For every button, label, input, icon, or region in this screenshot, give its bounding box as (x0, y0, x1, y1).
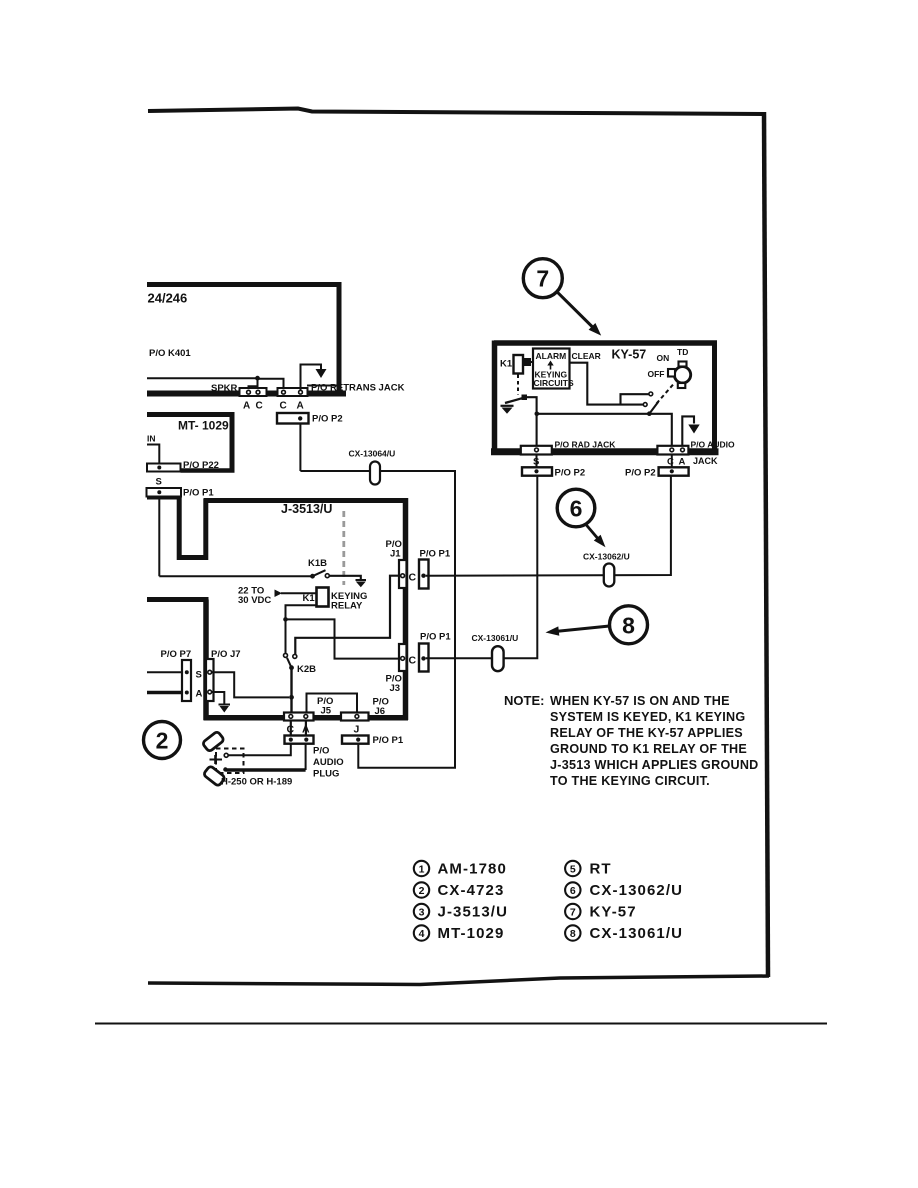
label KEYING RELAY (331, 591, 367, 612)
NOTE text block (550, 694, 759, 788)
callout 7 arrow (557, 292, 601, 336)
P/O P1 connector (MT-1029) (147, 488, 182, 497)
svg-text:P/O AUDIO: P/O AUDIO (691, 440, 735, 450)
up arrow in alarm box (547, 361, 553, 370)
alarm keying circuits box (533, 349, 570, 389)
P/O P2 connector (retrans) (277, 413, 309, 424)
TD switch arm (649, 402, 658, 414)
label C A (audio jack) (667, 457, 686, 468)
label P/O AUDIO (691, 440, 735, 450)
pin label C (SPKR) (256, 401, 263, 412)
svg-text:KY-57: KY-57 (590, 904, 637, 921)
AM-1780 box right edge (337, 282, 342, 396)
label JACK (693, 456, 718, 466)
audio jack pin A (681, 448, 685, 452)
connector P/O AUDIO JACK (657, 446, 688, 455)
wire plug A down link (305, 744, 307, 770)
svg-text:J-3513/U: J-3513/U (438, 904, 509, 921)
pin A of P7 (185, 691, 189, 695)
wire upper long run to KY-57 P2 (426, 476, 671, 576)
label ALARM (536, 351, 567, 361)
label IN (147, 434, 156, 444)
label TD (677, 347, 688, 357)
pin label C (287, 724, 295, 736)
pin label A (302, 724, 310, 736)
J-3513/U box left lower edge (203, 600, 209, 721)
ground (K1B) (356, 580, 367, 587)
AM-1780 internal shelf line left (147, 377, 258, 379)
svg-text:8: 8 (570, 928, 576, 940)
callout 6 arrow (586, 524, 606, 547)
svg-text:JACK: JACK (693, 456, 718, 466)
label S (RAD) (533, 457, 539, 468)
rotary knob circle (674, 367, 690, 383)
wire J7 A to ground (212, 692, 225, 704)
handset mouthpiece (203, 765, 225, 786)
scan top border (148, 109, 764, 115)
label 24/246 (148, 291, 188, 306)
switch K1B contact (325, 574, 329, 578)
ground (KY left) (501, 406, 514, 414)
svg-text:3: 3 (419, 906, 425, 918)
wire S line to K1B (159, 575, 311, 577)
MT-1029 box top edge (147, 412, 235, 417)
junction dot on S wire (535, 412, 540, 417)
wire RAD S to P2 (536, 455, 538, 468)
ground (J7 A) (219, 705, 231, 713)
svg-text:AM-1780: AM-1780 (438, 861, 507, 878)
label P/O P1 (upper right) (420, 549, 451, 560)
pin label A (SPKR) (243, 401, 250, 412)
wire CX-13064 run to J plug (300, 471, 455, 768)
svg-text:ALARM: ALARM (536, 351, 567, 361)
J-3513/U box left flange U-dip (179, 498, 206, 558)
relay K1 tab (523, 358, 531, 366)
legend item 3 (414, 904, 508, 921)
KY-57 box left edge (492, 341, 498, 456)
wire K1B contact to ground (329, 576, 361, 580)
label J-3513/U (281, 502, 332, 516)
label KY-57 title (612, 348, 647, 362)
pin J (edge) (355, 715, 359, 719)
svg-text:P/O RAD JACK: P/O RAD JACK (555, 440, 617, 450)
SPKR jack connector (240, 388, 267, 396)
retrans jack pin A (299, 390, 303, 394)
svg-text:6: 6 (570, 885, 576, 897)
pin label C (J3) (409, 655, 417, 667)
pin label A (retrans) (297, 401, 304, 412)
relay K1 (KY) (514, 355, 524, 374)
switch K2B pivot dot (289, 665, 294, 670)
P/O P22 pin (157, 466, 161, 470)
wire A pin to ground (KY right) (682, 416, 694, 447)
P/O P1 pin (157, 490, 161, 494)
P/O J5 outline box (307, 694, 358, 717)
pin C of J1 (401, 574, 405, 578)
svg-text:P/O P2: P/O P2 (625, 467, 656, 478)
label KEYING (alarm box) (535, 370, 568, 380)
pin label J (354, 724, 360, 736)
label P/O J1 (386, 539, 402, 560)
legend item 5 (565, 861, 612, 878)
AM-1780 box bottom edge (147, 391, 346, 397)
label P/O RAD JACK (555, 440, 617, 450)
switch K1B arm (313, 570, 326, 576)
label P/O P2 (right KY) (625, 467, 656, 478)
wire alarm box to TD contacts (570, 363, 644, 405)
label K1B (308, 558, 327, 569)
pin S of J7 (208, 670, 212, 674)
P2 right pin (670, 469, 674, 473)
audio plug pin C (289, 738, 293, 742)
arrow 22-30VDC feed (275, 590, 317, 598)
pin A (edge) (304, 715, 308, 719)
SPKR jack pin C (256, 390, 260, 394)
connector P/O P2 (left KY) (522, 467, 552, 475)
switch K2B contact A (284, 653, 288, 657)
wire TD common to S wire (537, 413, 650, 415)
AM-1780 internal shelf line right (307, 385, 341, 387)
legend item 2 (414, 882, 505, 899)
connector P/O J3 (399, 644, 407, 671)
junction dot J7-S wire (289, 695, 294, 700)
label K2B (297, 664, 316, 675)
wire branch to J3 pin C (286, 619, 401, 658)
svg-text:P/O P2: P/O P2 (555, 467, 586, 478)
svg-text:ON: ON (657, 353, 670, 363)
legend item 4 (414, 925, 505, 942)
pin label C (retrans) (280, 401, 287, 412)
wire handset mic to plug C (228, 744, 291, 756)
TD dashed link to knob (657, 384, 675, 404)
label P/O P7 (161, 649, 192, 660)
cable CX-13061/U pill (492, 646, 504, 671)
MT-1029 box bottom edge (181, 468, 235, 473)
connector P/O P7 (182, 660, 191, 701)
callout circle 8 (610, 606, 648, 644)
label K1 (relay) (303, 593, 316, 604)
label P/O P1 (MT-1029) (183, 488, 214, 499)
SPKR jack pin A (247, 390, 251, 394)
P1 J pin (356, 738, 360, 742)
connector P/O P2 (right KY) (659, 467, 689, 475)
callout circle 6 (557, 489, 595, 527)
callout 8 arrow (546, 626, 610, 636)
audio jack pin C (670, 448, 674, 452)
svg-text:4: 4 (419, 928, 425, 940)
label P/O P2 (left KY) (555, 467, 586, 478)
P/O P2 pin (298, 416, 302, 420)
wire K1 switch to S pin (527, 397, 537, 447)
handset grip mark (210, 755, 223, 764)
pin of P1 upper (421, 574, 425, 578)
label CX-13062/U (583, 552, 630, 562)
cable CX-13062/U pill (604, 564, 615, 587)
label P/O AUDIO PLUG (313, 746, 344, 780)
connector P/O J1 (399, 560, 407, 588)
label CIRCUITS (534, 378, 574, 388)
connector P/O P1 (upper right) (419, 560, 429, 589)
svg-text:7: 7 (570, 906, 576, 918)
thick wire handset to plug A (226, 768, 306, 771)
gray dashed line inside J box (342, 511, 345, 585)
label OFF (648, 369, 665, 379)
label CX-13061/U (472, 633, 519, 643)
svg-text:TD: TD (677, 347, 688, 357)
KY-57 box right edge (712, 341, 717, 456)
wire relay to K2B contact A (286, 605, 317, 653)
svg-text:CLEAR: CLEAR (572, 351, 601, 361)
label P/O J5 (317, 696, 333, 717)
audio plug pin A (304, 738, 308, 742)
relay K1 (J-3513) (317, 588, 329, 607)
svg-text:CX-4723: CX-4723 (438, 882, 505, 899)
K1 switch arm (505, 398, 524, 403)
label P/O P1 (lower right) (420, 632, 451, 643)
P2 left pin (534, 469, 538, 473)
wire J1 pin C down to K2B contact B (295, 576, 400, 655)
pin of P1 lower (421, 656, 425, 660)
svg-text:5: 5 (570, 863, 576, 875)
connector P/O RAD JACK (521, 446, 552, 455)
svg-text:OFF: OFF (648, 369, 665, 379)
wire IN to P22 pin (147, 445, 159, 466)
label SPKR (211, 383, 238, 394)
label A (J7) (196, 689, 203, 700)
retrans jack connector (278, 388, 308, 396)
label P/O RETRANS JACK (311, 383, 405, 394)
wire K2B common down to C pin (290, 668, 292, 714)
J-3513/U box right edge (403, 498, 409, 720)
label P/O J6 (373, 697, 389, 718)
handset pin (open) (224, 753, 228, 757)
callout circle 7 (523, 259, 562, 298)
legend item 7 (565, 904, 637, 921)
wire retrans A to down-arrow (301, 365, 322, 391)
svg-text:C: C (667, 457, 674, 468)
J-3513/U box bottom edge (204, 715, 409, 721)
J-3513/U box top edge (204, 498, 409, 503)
legend item 8 (565, 925, 683, 942)
label MT-1029 (178, 419, 229, 433)
knob bottom tab (678, 383, 686, 388)
switch K2B contact B (293, 654, 297, 658)
connector C-A on J box edge (284, 713, 314, 721)
dashed line K1 relay to switch (517, 375, 519, 395)
wire S vertical down from P1 (158, 497, 160, 577)
pin C of J3 (401, 657, 405, 661)
handset pin (filled) (223, 767, 227, 771)
knob left tab (668, 369, 675, 377)
pin A of J7 (208, 690, 212, 694)
wire tab to alarm box (531, 361, 534, 363)
thick bar under P1 connector (147, 497, 181, 500)
wire lower long run to KY-57 P2 S (426, 476, 538, 659)
legend item 1 (414, 861, 507, 878)
wire TD common to C pin (649, 414, 672, 447)
label ON (657, 353, 670, 363)
svg-text:A: A (679, 457, 686, 468)
wire riser to upper contact (621, 394, 649, 404)
cable CX-13064/U pill (370, 462, 380, 485)
connector P/O P1 (J plug) (342, 736, 369, 744)
pin S of P7 (185, 670, 189, 674)
wire dot to SPKR jack pin C (257, 378, 259, 390)
wire junction dot on shelf line (255, 376, 260, 381)
NOTE label (504, 693, 544, 708)
scan right border (764, 112, 768, 977)
connector audio plug C-A (285, 736, 314, 744)
thick bus wire into box lower-left (147, 597, 209, 602)
svg-text:CIRCUITS: CIRCUITS (534, 378, 574, 388)
wire SPKR jack pin A stub (249, 386, 258, 390)
callout circle 2 (144, 722, 181, 759)
TD upper contact (649, 392, 653, 396)
bottom horizontal rule (95, 1023, 827, 1025)
label P/O J7 (211, 649, 241, 660)
label P/O K401 (149, 348, 191, 359)
svg-text:CX-13061/U: CX-13061/U (590, 925, 684, 942)
svg-text:1: 1 (419, 863, 425, 875)
link C edge to plug (290, 721, 292, 736)
junction dot relay branch (283, 617, 288, 622)
scan bottom border (148, 976, 769, 985)
handset dashed body (216, 749, 244, 774)
RAD jack pin S (535, 448, 539, 452)
TD lower contact (643, 403, 647, 407)
switch K1B pivot dot (310, 574, 315, 579)
switch K2B arm (287, 658, 292, 668)
link A edge to plug (305, 721, 307, 736)
label H-250 OR H-189 (221, 777, 292, 788)
pin C (edge) (289, 715, 293, 719)
label P/O P22 (183, 460, 219, 471)
wire into P7 pin S (147, 671, 185, 673)
connector P/O P1 (lower right) (419, 644, 429, 672)
wire audio C to P2 (671, 455, 673, 468)
label 22 TO 30 VDC (238, 586, 271, 607)
wire J7 S to K2B line (212, 672, 289, 697)
arrow head down (retrans) (316, 369, 327, 378)
KY-57 box top edge (494, 340, 717, 346)
connector J on J box edge (341, 713, 369, 721)
svg-text:2: 2 (419, 885, 425, 897)
retrans jack pin C (282, 390, 286, 394)
label P/O P2 (retrans) (312, 414, 343, 425)
TD switch common dot (647, 411, 652, 416)
handset earpiece (202, 731, 224, 752)
label CLEAR (572, 351, 601, 361)
svg-text:RT: RT (590, 861, 612, 878)
AM-1780 box (24/246) top edge (147, 282, 342, 287)
label P/O P1 (J plug) (373, 735, 404, 746)
legend item 6 (565, 882, 683, 899)
label P/O J3 (386, 674, 402, 695)
K1 switch contact square (522, 395, 528, 401)
thick wire into P7 pin A (147, 691, 185, 695)
MT-1029 box right edge (230, 412, 235, 473)
label CX-13064/U (349, 449, 396, 459)
label K1 (KY) (500, 359, 513, 370)
pin label C (J1) (409, 572, 417, 584)
wire dot to retrans jack pin C (258, 379, 284, 391)
P/O P22 connector (147, 464, 181, 472)
KY-57 box bottom edge (491, 448, 719, 455)
svg-text:K1: K1 (500, 359, 513, 370)
label S (J7) (196, 670, 202, 681)
knob top tab (679, 362, 687, 367)
svg-text:KY-57: KY-57 (612, 348, 647, 362)
wire P2 down (299, 424, 301, 472)
label S (MT-1029) (156, 477, 162, 488)
svg-text:MT-1029: MT-1029 (438, 925, 505, 942)
connector P/O J7 (206, 659, 214, 701)
ground (KY right) (688, 425, 699, 434)
svg-text:CX-13062/U: CX-13062/U (590, 882, 684, 899)
